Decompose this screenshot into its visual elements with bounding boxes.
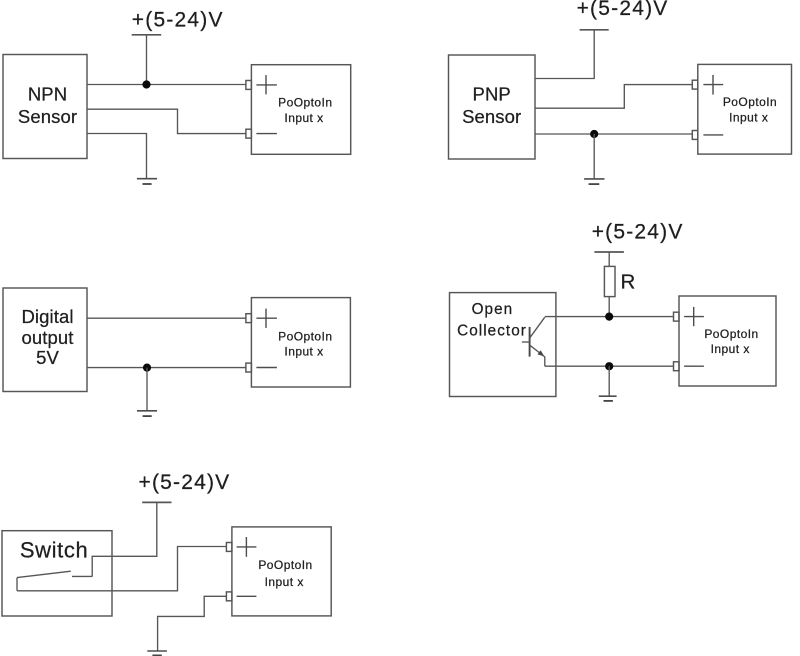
wire PNP pin2 to + input <box>535 85 692 109</box>
wire collector node to + input <box>545 316 674 318</box>
wire NPN pin2 to - input <box>87 109 246 133</box>
svg-text:Input x: Input x <box>729 111 768 125</box>
svg-text:PNP: PNP <box>473 84 511 105</box>
svg-text:Input x: Input x <box>265 575 304 589</box>
svg-text:Input x: Input x <box>711 342 750 356</box>
wire power drop to switch contact <box>92 502 157 576</box>
minus sign <box>237 595 257 597</box>
svg-text:Collector: Collector <box>457 323 527 340</box>
plus sign <box>703 75 723 95</box>
terminal + pin (PoOptoIn, Digital circuit) <box>246 314 252 323</box>
svg-text:Input x: Input x <box>284 111 323 125</box>
terminal - pin (PoOptoIn, PNP circuit) <box>692 131 698 140</box>
terminal - pin (PoOptoIn, Switch circuit) <box>226 592 232 601</box>
wire junction to ground (Open Collector) <box>608 366 610 396</box>
wire power drop to PNP pin1 <box>535 30 594 79</box>
minus sign <box>684 365 704 367</box>
wire Digital out pin1 to + input <box>87 317 246 319</box>
block PoOptoIn Input x (Open Collector circuit) <box>679 296 776 386</box>
terminal + pin (PoOptoIn, Switch circuit) <box>226 543 232 552</box>
wire Digital out pin2 to - input <box>87 367 246 369</box>
minus sign <box>256 133 277 135</box>
plus sign <box>256 75 277 94</box>
svg-text:Sensor: Sensor <box>462 106 521 127</box>
block Switch <box>2 531 112 616</box>
svg-text:Digital: Digital <box>21 306 73 327</box>
block Digital output 5V <box>3 288 87 392</box>
power bar (Open Collector V+) <box>594 251 624 253</box>
terminal - pin (PoOptoIn, NPN circuit) <box>246 129 252 138</box>
block PNP Sensor <box>449 55 536 159</box>
block PoOptoIn Input x (NPN circuit) <box>251 65 350 155</box>
svg-text:PoOptoIn: PoOptoIn <box>723 95 777 109</box>
svg-text:5V: 5V <box>36 347 59 368</box>
svg-text:NPN: NPN <box>28 84 67 105</box>
ground (PNP) <box>584 179 604 184</box>
wire NPN pin1 to + input <box>87 84 246 86</box>
block Open Collector <box>450 293 556 397</box>
ground (NPN) <box>137 179 157 184</box>
ground (Switch) <box>147 651 167 655</box>
plus sign <box>237 537 257 557</box>
wire junction to ground (Digital) <box>146 368 148 411</box>
svg-text:+(5-24)V: +(5-24)V <box>592 221 684 244</box>
transistor Q1 (open collector output) <box>522 317 545 366</box>
ground (Digital) <box>137 411 157 416</box>
power bar (NPN V+) <box>132 34 162 36</box>
terminal - pin (PoOptoIn, Digital circuit) <box>246 363 252 372</box>
wire power bar to resistor <box>608 252 610 266</box>
svg-text:PoOptoIn: PoOptoIn <box>278 96 332 110</box>
block NPN Sensor <box>3 55 87 159</box>
minus sign <box>256 367 277 369</box>
wire - input to ground (Switch) <box>158 596 227 651</box>
wire NPN pin3 to ground <box>87 134 147 179</box>
svg-text:+(5-24)V: +(5-24)V <box>139 471 231 494</box>
wire power drop (NPN) <box>146 35 148 85</box>
svg-text:Sensor: Sensor <box>18 106 77 127</box>
minus sign <box>703 134 723 136</box>
terminal + pin (PoOptoIn, NPN circuit) <box>246 81 252 90</box>
junction dot node V+ (NPN) <box>142 80 150 88</box>
svg-text:+(5-24)V: +(5-24)V <box>132 8 224 31</box>
svg-text:R: R <box>621 270 636 293</box>
terminal + pin (PoOptoIn, PNP circuit) <box>692 80 698 89</box>
svg-text:PoOptoIn: PoOptoIn <box>278 329 332 343</box>
svg-text:Open: Open <box>472 301 514 318</box>
block PoOptoIn Input x (PNP circuit) <box>698 64 792 154</box>
switch S1 contact and lever <box>17 571 92 591</box>
junction dot node GND (PNP) <box>590 130 598 138</box>
junction dot node E (emitter wire to ground) <box>605 362 613 370</box>
power bar (Switch V+) <box>142 501 171 503</box>
ground (Open Collector) <box>599 396 617 401</box>
resistor R <box>604 266 615 296</box>
svg-text:Switch: Switch <box>20 537 88 562</box>
svg-text:PoOptoIn: PoOptoIn <box>704 327 758 341</box>
junction dot node C (resistor to collector wire) <box>605 313 613 321</box>
svg-text:PoOptoIn: PoOptoIn <box>258 558 312 572</box>
plus sign <box>256 309 277 328</box>
terminal - pin (PoOptoIn, Open Collector circuit) <box>674 362 680 371</box>
block PoOptoIn Input x (Switch circuit) <box>232 527 331 616</box>
junction dot node GND (Digital) <box>143 364 151 372</box>
plus sign <box>684 307 704 326</box>
svg-text:+(5-24)V: +(5-24)V <box>577 0 669 20</box>
power bar (PNP V+) <box>580 29 609 31</box>
wire emitter node to - input <box>545 365 674 367</box>
wire switch pole to + input <box>17 547 226 591</box>
svg-text:output: output <box>21 327 73 348</box>
terminal + pin (PoOptoIn, Open Collector circuit) <box>674 312 680 321</box>
block PoOptoIn Input x (Digital circuit) <box>251 298 350 387</box>
wire resistor to node C <box>608 297 610 317</box>
wire junction to ground (PNP) <box>593 134 595 178</box>
wire PNP pin3 to - input <box>535 133 692 135</box>
svg-text:Input x: Input x <box>284 344 323 358</box>
